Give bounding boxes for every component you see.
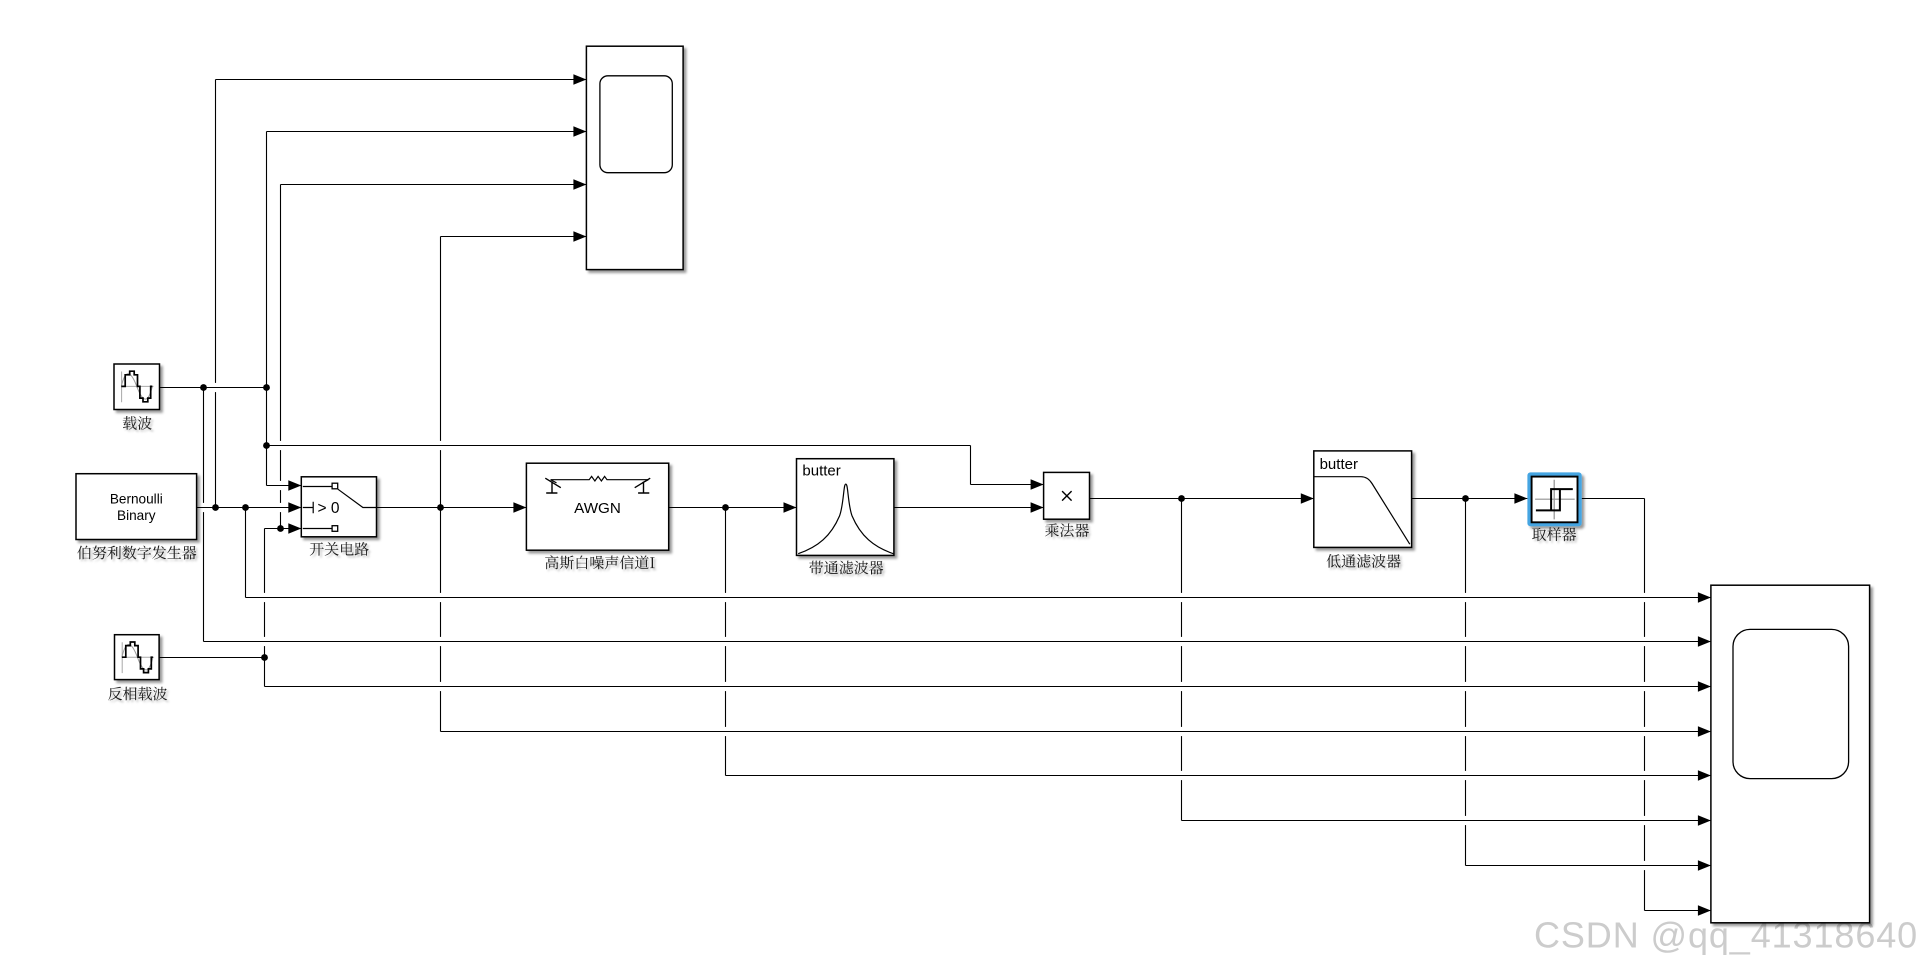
svg-text:Bernoulli: Bernoulli — [110, 491, 163, 506]
svg-text:Binary: Binary — [117, 508, 156, 523]
svg-text:butter: butter — [1320, 456, 1358, 473]
svg-text:butter: butter — [802, 462, 840, 479]
svg-text:> 0: > 0 — [318, 500, 340, 517]
svg-text:AWGN: AWGN — [574, 500, 621, 517]
